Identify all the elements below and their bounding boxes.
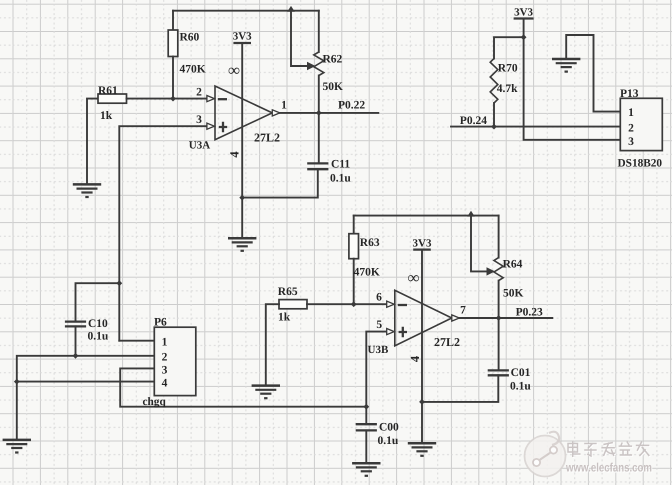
svg-text:470K: 470K — [180, 64, 206, 76]
pin number 4 of U3A — [227, 151, 241, 158]
wire U3A output to P0.22 — [280, 112, 379, 114]
label R70 — [498, 63, 518, 75]
node R70 to P0.24 wire — [491, 124, 497, 130]
junction arrow on bottom rail — [467, 211, 475, 217]
pin number 4 of U3B — [408, 355, 422, 362]
power 3V3 of DS18B20 — [514, 6, 534, 18]
wire C10 bottom to P6 pin2 net — [75, 326, 77, 355]
svg-text:www.elecfans.com: www.elecfans.com — [565, 461, 652, 475]
wire 3V3 through U3B pin4 to ground — [421, 250, 423, 444]
svg-text:3: 3 — [196, 114, 202, 126]
label R65 — [278, 286, 298, 298]
wire R65 left to ground — [266, 304, 279, 385]
part value 27L2 of U3B — [434, 335, 460, 349]
svg-text:R63: R63 — [360, 237, 380, 249]
value 0.1u of C00 — [378, 435, 399, 447]
wire P0.24 to P13 pin 2 — [451, 126, 620, 128]
svg-text:R70: R70 — [498, 63, 518, 75]
svg-text:P6: P6 — [154, 316, 167, 328]
label C01 — [511, 367, 531, 379]
pin number 1 of U3A — [281, 100, 287, 112]
output pin 7 arrow of U3B — [452, 315, 460, 321]
label R64 — [503, 258, 523, 270]
label U3B — [368, 344, 389, 356]
svg-text:C10: C10 — [88, 318, 108, 330]
node output P0.22 junction — [316, 110, 322, 116]
svg-text:R64: R64 — [503, 258, 523, 270]
value 4.7k of R70 — [497, 83, 518, 95]
svg-text:U3B: U3B — [368, 344, 389, 356]
capacitor C00 — [356, 424, 377, 430]
connector P13 box — [620, 98, 662, 150]
infinity symbol of U3A — [228, 61, 240, 80]
pin 4 of P6 — [162, 378, 168, 390]
resistor R63 — [349, 234, 359, 259]
pin 2 of P13 — [628, 122, 634, 134]
resistor R61 — [98, 94, 127, 103]
wiper arrow of R64 — [487, 267, 496, 275]
wire 3V3 branch to R70 top — [494, 37, 524, 58]
node R60/R61 junction — [170, 96, 176, 102]
ground below R61 — [73, 184, 101, 197]
wire R61 left to ground — [87, 99, 98, 185]
infinity symbol of U3B — [408, 268, 420, 287]
wire R65 to U3B pin 6 — [307, 303, 387, 305]
wire R60 top to rail — [172, 11, 174, 30]
plus sign of U3B — [399, 327, 407, 337]
potentiometer R64 — [494, 258, 503, 281]
svg-text:1k: 1k — [278, 311, 291, 323]
label C00 — [379, 421, 399, 433]
value 470K of R60 — [180, 64, 206, 76]
wire R64 wiper from rail — [471, 216, 487, 272]
svg-text:DS18B20: DS18B20 — [618, 157, 663, 169]
junction arrow on top rail — [287, 6, 295, 12]
svg-text:P0.23: P0.23 — [516, 306, 543, 318]
label R63 — [360, 237, 380, 249]
minus sign of U3B — [398, 304, 407, 306]
wire C11 bottom return — [242, 169, 318, 197]
node C10 on pin2 net — [73, 353, 79, 359]
ground of P13 pin 1 — [552, 59, 580, 72]
output pin 1 arrow of U3A — [272, 110, 280, 116]
node R63/R65 junction — [351, 301, 357, 307]
svg-text:∞: ∞ — [228, 61, 240, 80]
wire top feedback rail — [173, 10, 319, 12]
svg-text:5: 5 — [376, 319, 382, 331]
svg-text:2: 2 — [628, 122, 634, 134]
svg-text:1: 1 — [162, 337, 168, 349]
wire R63 bottom to pin6 node — [353, 259, 355, 305]
svg-text:P0.24: P0.24 — [460, 115, 487, 127]
svg-text:0.1u: 0.1u — [88, 330, 109, 342]
svg-text:4: 4 — [408, 355, 422, 362]
part name DS18B20 — [618, 157, 663, 169]
op-amp U3A triangle — [215, 86, 272, 140]
pin 3 of P6 — [162, 365, 168, 377]
value 0.1u of C11 — [330, 173, 351, 185]
potentiometer R62 — [314, 52, 324, 76]
value 1k of R61 — [100, 110, 113, 122]
wire 3V3 through U3A pin4 to ground — [241, 43, 243, 238]
svg-text:2: 2 — [196, 86, 202, 98]
pin 6 arrow of U3B — [387, 301, 395, 307]
svg-text:3: 3 — [162, 365, 168, 377]
node chgq junction at pin5 line — [363, 404, 369, 410]
value 50K of R62 — [323, 81, 344, 93]
svg-text:50K: 50K — [503, 288, 524, 300]
pin 3 arrow of U3A — [207, 123, 215, 129]
svg-text:50K: 50K — [323, 81, 344, 93]
value 470K of R63 — [354, 267, 380, 279]
svg-text:1: 1 — [628, 107, 634, 119]
pin 2 arrow of U3A — [207, 96, 215, 102]
pin number 3 of U3A — [196, 114, 202, 126]
svg-text:1: 1 — [281, 100, 287, 112]
label C11 — [331, 159, 350, 171]
svg-text:P13: P13 — [620, 88, 639, 100]
label R62 — [323, 54, 343, 66]
ground below R65 — [252, 386, 280, 399]
label C10 — [88, 318, 108, 330]
connector P6 box — [154, 327, 196, 395]
node R70 branch on 3V3 line — [521, 34, 527, 40]
wire R62 bottom to C11 — [318, 76, 320, 164]
wire C00 bottom to ground — [365, 430, 367, 463]
wire C01 bottom return — [422, 375, 498, 402]
wire P6 pin 1 — [119, 340, 154, 342]
pin number 6 of U3B — [376, 292, 382, 304]
net label P0.24 — [460, 115, 487, 127]
resistor R65 — [279, 300, 307, 309]
wire R62 top — [318, 11, 320, 52]
svg-text:R65: R65 — [278, 286, 298, 298]
node output P0.23 junction — [496, 315, 502, 321]
ground of C00 — [352, 463, 380, 476]
pin number 5 of U3B — [376, 319, 382, 331]
svg-text:∞: ∞ — [408, 268, 420, 287]
wire R60 bottom to node — [172, 57, 174, 99]
wire P6 pin 2 to left — [17, 356, 155, 440]
svg-text:U3A: U3A — [189, 140, 210, 152]
svg-text:470K: 470K — [354, 267, 380, 279]
wire R63 top to rail — [353, 216, 355, 234]
pin 1 of P6 — [162, 337, 168, 349]
wire R70 bottom to P0.24 net — [493, 103, 495, 127]
pin number 2 of U3A — [196, 86, 202, 98]
svg-text:3V3: 3V3 — [233, 31, 252, 43]
wire U3A pin 3 to P6 pin 1 — [119, 126, 207, 341]
svg-text:3: 3 — [628, 136, 634, 148]
label R60 — [180, 32, 200, 44]
svg-text:4: 4 — [227, 151, 241, 158]
pin 1 of P13 — [628, 107, 634, 119]
svg-text:4.7k: 4.7k — [497, 83, 518, 95]
op-amp U3B triangle — [395, 290, 452, 346]
net label P0.23 — [516, 306, 543, 318]
svg-text:27L2: 27L2 — [434, 335, 460, 349]
svg-text:C01: C01 — [511, 367, 531, 379]
svg-text:R61: R61 — [98, 85, 118, 97]
net label P0.22 — [338, 100, 365, 112]
wire C10 top to pin3 line — [76, 283, 120, 321]
part value 27L2 of U3A — [254, 131, 280, 145]
wire R62 wiper from rail — [291, 11, 307, 66]
svg-text:3V3: 3V3 — [514, 6, 533, 18]
wire P13 pin 1 to ground — [566, 35, 620, 112]
value 0.1u of C01 — [510, 381, 531, 393]
ground of U3B pin 4 — [408, 443, 436, 456]
pin 3 of P13 — [628, 136, 634, 148]
wire P6 pin 3 chgq net — [120, 368, 366, 406]
svg-text:6: 6 — [376, 292, 382, 304]
capacitor C11 — [307, 163, 328, 169]
resistor R70 — [490, 59, 498, 104]
svg-text:1k: 1k — [100, 110, 113, 122]
wire R61 to U3A pin 2 — [127, 98, 207, 100]
wire R64 top — [498, 216, 500, 258]
wire U3B output to P0.23 — [459, 317, 552, 319]
label R61 — [98, 85, 118, 97]
wiper arrow of R62 — [307, 62, 316, 70]
label P13 — [620, 88, 639, 100]
value 0.1u of C10 — [88, 330, 109, 342]
wire P6 pin 4 to left — [17, 381, 155, 383]
svg-text:0.1u: 0.1u — [378, 435, 399, 447]
svg-text:27L2: 27L2 — [254, 131, 280, 145]
pin number 7 of U3B — [460, 305, 466, 317]
ground of U3A pin 4 — [228, 238, 256, 251]
svg-text:3V3: 3V3 — [413, 237, 432, 249]
node pin2/pin4 ground junction — [14, 379, 20, 385]
node C01 return on pin4 line — [419, 399, 425, 405]
node C11 return on pin4 line — [239, 195, 245, 201]
svg-text:C00: C00 — [379, 421, 399, 433]
svg-text:P0.22: P0.22 — [338, 100, 365, 112]
svg-text:7: 7 — [460, 305, 466, 317]
svg-text:4: 4 — [162, 378, 168, 390]
label U3A — [189, 140, 210, 152]
capacitor C01 — [488, 370, 509, 375]
node C10 branch on pin3 line — [116, 280, 122, 286]
svg-text:C11: C11 — [331, 159, 350, 171]
wire R64 bottom to C01 — [498, 281, 500, 371]
pin 5 arrow of U3B — [387, 329, 395, 335]
svg-text:R60: R60 — [180, 32, 200, 44]
watermark text www.elecfans.com — [565, 461, 653, 476]
power 3V3 of U3B — [413, 237, 432, 249]
resistor R60 — [168, 30, 178, 57]
capacitor C10 — [65, 322, 86, 327]
label P6 — [154, 316, 167, 328]
svg-text:2: 2 — [162, 351, 168, 363]
ground bottom left — [3, 440, 31, 453]
wire bottom feedback rail — [354, 215, 499, 217]
svg-text:R62: R62 — [323, 54, 343, 66]
minus sign of U3A — [218, 98, 227, 100]
power 3V3 of U3A — [233, 31, 252, 43]
plus sign of U3A — [219, 122, 227, 132]
wire U3B pin 5 to chgq net — [366, 332, 387, 425]
value 1k of R65 — [278, 311, 291, 323]
net label chgq — [143, 396, 167, 408]
svg-text:0.1u: 0.1u — [510, 381, 531, 393]
svg-text:0.1u: 0.1u — [330, 173, 351, 185]
pin 2 of P6 — [162, 351, 168, 363]
svg-text:chgq: chgq — [143, 396, 167, 408]
value 50K of R64 — [503, 288, 524, 300]
watermark logo circle — [525, 432, 566, 477]
wire 3V3 down to P13 pin 3 — [524, 19, 621, 140]
watermark text dianzifashaoyou — [568, 442, 650, 458]
